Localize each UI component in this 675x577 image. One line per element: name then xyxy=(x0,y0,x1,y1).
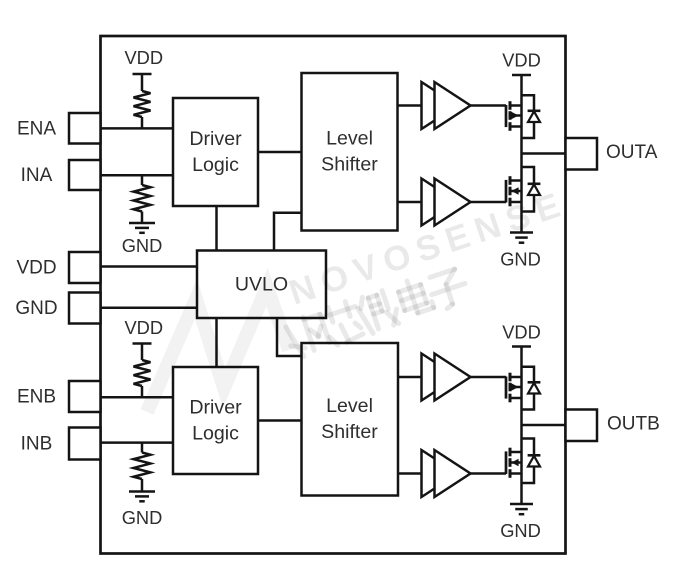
wire OUTA node xyxy=(522,152,566,155)
IC boundary border xyxy=(101,36,566,554)
resistor pull-down B xyxy=(141,443,144,453)
ground symbol output B xyxy=(510,503,533,506)
pin ENB xyxy=(69,381,101,412)
svg-text:VDD: VDD xyxy=(124,317,163,338)
wire output rail A xyxy=(520,75,523,233)
wire DriverA to UVLO xyxy=(215,206,218,251)
wire ENA to block xyxy=(101,127,174,130)
transistor PMOS A xyxy=(505,105,508,127)
buffer A1 xyxy=(422,82,458,129)
svg-text:Driver: Driver xyxy=(189,128,242,150)
wire LevelShifterB to buffer B2 xyxy=(398,472,422,475)
wire INA to block xyxy=(101,174,174,177)
svg-text:ENA: ENA xyxy=(17,118,56,139)
pin INB xyxy=(69,428,101,460)
wire DriverB to LevelShifterB xyxy=(258,419,302,422)
wire INB to block xyxy=(101,441,174,444)
svg-text:OUTA: OUTA xyxy=(606,142,658,163)
svg-text:GND: GND xyxy=(122,507,163,528)
watermark logo chevron xyxy=(147,287,289,412)
resistor pull-up A xyxy=(134,91,151,117)
svg-text:INB: INB xyxy=(21,434,53,455)
svg-text:VDD: VDD xyxy=(124,47,163,68)
resistor pull-up B xyxy=(134,360,151,386)
wire UVLO to LevelShifterA xyxy=(274,213,302,251)
block Level Shifter B xyxy=(302,343,399,496)
pin OUTA xyxy=(566,138,598,170)
svg-text:VDD: VDD xyxy=(502,322,541,343)
wire LevelShifterB to buffer B1 xyxy=(398,376,422,379)
pin OUTB xyxy=(566,410,598,442)
buffer B2 xyxy=(422,450,458,497)
svg-text:INA: INA xyxy=(21,165,53,186)
wire DriverA to LevelShifterA xyxy=(258,151,302,154)
buffer A2 xyxy=(422,179,458,226)
diode body PMOS B xyxy=(522,367,535,383)
transistor NMOS B xyxy=(505,451,508,474)
block Level Shifter A xyxy=(302,73,398,231)
wire buffer A2 to NMOS gate A xyxy=(471,201,507,204)
svg-text:GND: GND xyxy=(500,520,541,541)
svg-text:GND: GND xyxy=(500,249,541,270)
wire OUTB node xyxy=(522,424,566,427)
ground symbol A xyxy=(129,222,155,225)
wire UVLO to LevelShifterB xyxy=(277,318,302,356)
svg-text:Shifter: Shifter xyxy=(321,421,378,443)
block Driver Logic A xyxy=(173,98,258,206)
block Driver Logic B xyxy=(173,367,258,474)
ground symbol B xyxy=(129,490,155,493)
pin ENA xyxy=(69,113,101,144)
svg-text:Logic: Logic xyxy=(192,423,239,445)
wire buffer B1 to PMOS gate B xyxy=(471,376,507,379)
wire buffer A1 to PMOS gate A xyxy=(471,104,507,107)
diode body PMOS A xyxy=(522,95,535,111)
svg-text:GND: GND xyxy=(15,298,57,319)
svg-text:OUTB: OUTB xyxy=(607,414,660,435)
watermark text NOVOSENSE xyxy=(284,184,572,313)
transistor NMOS A xyxy=(505,180,508,203)
watermark text chinese xyxy=(283,264,471,360)
svg-text:Shifter: Shifter xyxy=(321,154,378,176)
wire LevelShifterA to buffer A1 xyxy=(398,104,422,107)
wire ENB to block xyxy=(101,396,174,399)
svg-text:Level: Level xyxy=(326,128,373,150)
svg-text:Logic: Logic xyxy=(192,154,239,176)
buffer B1 xyxy=(422,354,458,401)
svg-text:VDD: VDD xyxy=(502,50,541,71)
svg-text:GND: GND xyxy=(122,235,163,256)
resistor pull-down A xyxy=(141,175,144,185)
wire LevelShifterA to buffer A2 xyxy=(398,201,422,204)
svg-text:Driver: Driver xyxy=(189,397,242,419)
ground symbol output A xyxy=(510,231,533,234)
pin VDD xyxy=(69,252,101,283)
pin GND xyxy=(69,293,101,324)
wire buffer B2 to NMOS gate B xyxy=(471,472,507,475)
transistor PMOS B xyxy=(505,377,508,399)
wire output rail B xyxy=(520,347,523,505)
diode body NMOS A xyxy=(522,167,535,184)
wire GND to block xyxy=(101,306,198,309)
pin INA xyxy=(69,160,101,190)
wire VDD to block xyxy=(101,265,198,268)
svg-text:ENB: ENB xyxy=(17,387,56,408)
svg-text:VDD: VDD xyxy=(16,258,56,279)
block UVLO xyxy=(197,251,326,319)
svg-text:Level: Level xyxy=(326,395,373,417)
wire UVLO to DriverB xyxy=(215,318,218,367)
diode body NMOS B xyxy=(522,439,535,456)
